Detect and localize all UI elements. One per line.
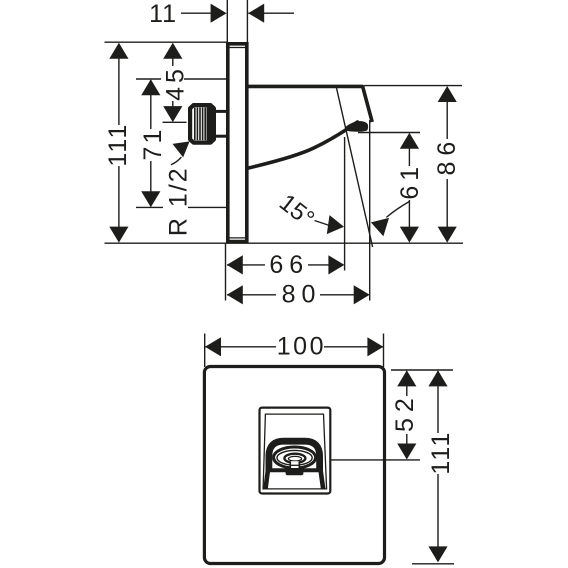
spout face bottom bar <box>268 468 322 472</box>
svg-text:100: 100 <box>277 332 326 360</box>
dimension 111 (left): line and arrows <box>118 44 120 125</box>
spout underside curve <box>249 122 358 168</box>
dimension 100: right line and arrow <box>324 346 383 348</box>
extension line from spout tip (for 66) <box>344 137 346 271</box>
spout stem <box>290 461 299 469</box>
threaded nipple solid collar <box>207 106 213 142</box>
spout top edge and 15-degree spray face <box>247 86 372 122</box>
dimension 111 (bottom view): bottom tick line <box>412 563 454 565</box>
spout face second ellipse <box>277 450 312 465</box>
wall plate top lip line <box>229 47 246 49</box>
dimension 61: top tick line <box>358 132 420 134</box>
dimension 45: line and arrows <box>172 44 174 66</box>
dimension 52: top tick line <box>391 369 453 371</box>
threaded nipple body <box>190 105 214 143</box>
dimension 111 (bottom view): line and arrows <box>437 371 439 433</box>
datum top tick line (top of plate) <box>105 41 228 43</box>
dimension 86: top tick line (top of spout) <box>364 85 462 87</box>
dimension 100: left line and arrow <box>205 346 276 348</box>
dimension 52: bottom leader from window <box>331 459 420 461</box>
aerator inner ellipse <box>288 456 301 461</box>
dimension 11: right leader and arrow <box>248 12 294 14</box>
svg-text:11: 11 <box>149 0 177 28</box>
spout arch (front view) <box>269 441 320 471</box>
wall plate (side view) outline <box>228 44 247 242</box>
angle 15 deg: left leader and arrow <box>315 221 332 227</box>
threaded nipple thread lines <box>194 108 196 141</box>
wall plate bottom lip line <box>229 237 246 239</box>
dimension 100: left extension tick <box>204 334 206 368</box>
datum bottom line <box>105 242 464 244</box>
dimension 11: extension line left <box>226 0 228 42</box>
spout window inner frame (perspective) <box>263 414 327 489</box>
svg-text:52: 52 <box>391 392 419 432</box>
nipple neck bottom line <box>213 135 227 138</box>
svg-text:66: 66 <box>269 251 309 279</box>
dimension 71: top tick line <box>136 78 161 80</box>
dimension 80: left line and arrow <box>227 294 276 296</box>
svg-text:61: 61 <box>396 162 424 200</box>
nipple neck top line <box>213 110 227 113</box>
svg-text:45: 45 <box>161 65 189 101</box>
svg-text:71: 71 <box>139 127 167 161</box>
dimension 100: right extension tick <box>383 334 385 368</box>
dimension 86: line and arrows <box>446 87 448 139</box>
dimension 71: bottom tick line <box>136 206 163 208</box>
spout face outer ellipse <box>274 447 316 468</box>
dimension 11: extension line right <box>246 0 248 42</box>
dimension 80: right line and arrow <box>320 294 365 296</box>
svg-text:86: 86 <box>433 136 461 176</box>
spout arch left leg <box>266 470 269 490</box>
dimension 71: line and arrows <box>150 80 152 129</box>
spout window outer frame <box>260 408 331 494</box>
dimension 11: left leader and arrow <box>181 12 222 14</box>
dimension 45: bottom tick line (nipple centre) <box>163 121 187 123</box>
spout nose tip (aerator, filled) <box>345 121 368 132</box>
extension line from wall face (for 66/80) <box>225 243 227 300</box>
label R 1/2: leader with arrow to thread <box>172 158 182 165</box>
spout bottom tab <box>286 469 304 476</box>
escutcheon plate (front view) <box>204 367 384 564</box>
svg-text:80: 80 <box>282 281 322 309</box>
svg-text:R 1/2: R 1/2 <box>164 166 192 236</box>
angle 15 deg: right leader and arrow <box>387 202 410 218</box>
15-degree construction line <box>337 88 373 247</box>
svg-text:111: 111 <box>427 431 455 475</box>
dimension 52: line and arrows <box>406 371 408 396</box>
dimension 66: left line and arrow <box>227 264 265 266</box>
dimension 61: line and arrows <box>408 134 410 166</box>
spout arch right leg <box>321 470 324 490</box>
aerator ellipse <box>284 454 305 463</box>
svg-text:111: 111 <box>104 123 132 167</box>
dimension 66: right line and arrow <box>308 264 340 266</box>
extension line from spout nose (for 80) <box>369 120 371 301</box>
